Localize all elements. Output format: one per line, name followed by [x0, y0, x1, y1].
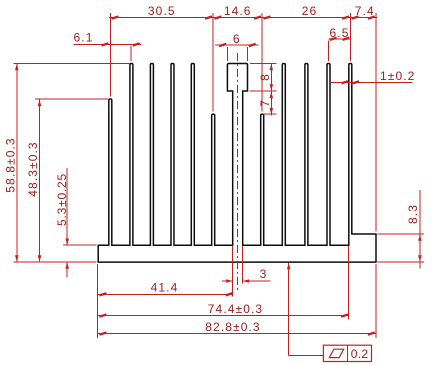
extension x=242.7 (stem right) below base top — [242, 246, 244, 284]
svg-text:6.1: 6.1 — [74, 31, 94, 45]
extension line x=213.2 (short fin6 center) — [212, 13, 214, 111]
dim line 6 (cap width) — [215, 44, 259, 46]
svg-text:3: 3 — [260, 267, 268, 281]
extension line x=110.3 (fin1 center) — [109, 13, 111, 96]
extension y=245.2 left (base top) — [63, 244, 97, 246]
dim line 5.3±0.25 upper segment — [66, 168, 68, 245]
dim line 82.8±0.3 — [98, 333, 376, 335]
arrowheads 5.3 (outside span) — [65, 239, 69, 246]
svg-text:6: 6 — [233, 32, 241, 46]
tick 30.5 left — [112, 17, 119, 19]
arrowheads dim 8 — [270, 64, 274, 71]
centerline of center T-fin (dash-dot) — [237, 53, 239, 291]
dim line 6.5 — [329, 38, 351, 40]
svg-text:6.5: 6.5 — [330, 26, 350, 40]
extension x=232.7 (stem left) below base top — [232, 246, 234, 297]
dim line 8.3 — [419, 190, 421, 269]
extension y=91 (cap bottom level) — [250, 90, 277, 92]
tick 14.6 right / 26 left — [254, 17, 261, 19]
heatsink extruded profile outline (fins, center T-fin, base, right ledge) — [98, 64, 376, 263]
tick 7.4 right — [368, 17, 375, 19]
svg-text:30.5: 30.5 — [148, 4, 176, 18]
ticks 41.4 — [99, 293, 106, 295]
ticks 6.5 (inside) — [330, 38, 337, 40]
extension y=114.1 (short fin top level) — [262, 113, 276, 115]
svg-text:7: 7 — [258, 99, 272, 107]
flatness leader line — [288, 263, 290, 356]
svg-text:8: 8 — [258, 73, 272, 81]
dim 3 line left stub — [222, 280, 233, 282]
arrowheads dim 7 — [270, 92, 274, 99]
tick 26 right / 7.4 left — [342, 17, 349, 19]
flatness leader arrow — [287, 263, 291, 270]
arrowheads 58.8 — [15, 64, 19, 71]
svg-text:14.6: 14.6 — [224, 4, 252, 18]
ticks 82.8 — [99, 333, 106, 335]
svg-text:8.3: 8.3 — [406, 204, 420, 224]
extension x=227.4 (cap left) — [226, 47, 228, 61]
extension x=348.4 (fin12 left) through base — [347, 246, 349, 320]
svg-text:5.3±0.25: 5.3±0.25 — [55, 173, 69, 226]
dim line 58.8±0.3 — [16, 64, 18, 263]
svg-text:26: 26 — [302, 4, 318, 18]
dim line 5.3±0.25 lower segment — [66, 262, 68, 277]
dim 3 arrows (outside) — [226, 279, 233, 283]
svg-text:82.8±0.3: 82.8±0.3 — [205, 320, 260, 334]
extension x=350.3 (fin12 center, upper) — [349, 41, 351, 62]
svg-text:48.3±0.3: 48.3±0.3 — [26, 141, 40, 196]
dim line 48.3±0.3 — [39, 100, 41, 262]
extension y=262.1 left (base bottom) — [13, 261, 96, 263]
dim line 6.1 — [74, 43, 141, 45]
extension y=99 left (fin1 top) — [35, 98, 108, 100]
svg-text:0.2: 0.2 — [351, 347, 369, 361]
ticks 6 (outside) — [219, 44, 226, 46]
svg-text:58.8±0.3: 58.8±0.3 — [3, 137, 17, 192]
svg-text:1±0.2: 1±0.2 — [380, 69, 415, 83]
extension x=376 below base — [375, 264, 377, 338]
extension line x=262.2 (short fin8 center) — [261, 13, 263, 111]
extension x=130.9 (fin2 center) — [130, 46, 132, 61]
extension y=234 right (ledge top) — [377, 233, 424, 235]
extension line x=376 (base right edge) — [375, 13, 377, 231]
extension y=63.5 left (tall fin top) — [13, 63, 129, 65]
dim line 8/7 vertical — [270, 64, 272, 116]
dim line 1±0.2 (fin thickness) — [330, 81, 412, 83]
extension y=262.1 right (base bottom) — [377, 261, 424, 263]
svg-text:74.4±0.3: 74.4±0.3 — [208, 302, 263, 316]
extension y=63.5 (cap top level) — [250, 63, 276, 65]
arrowheads 48.3 — [38, 100, 42, 107]
extension x=98.2 below base — [97, 264, 99, 338]
ticks 1±0.2 (outside fin12 edges) — [342, 81, 348, 83]
top dimension chain line (30.5 / 14.6 / 26 / 7.4) — [109, 17, 377, 19]
extension line x=350.3 (fin12 center) — [349, 13, 351, 61]
dim 3 line right segment — [243, 280, 271, 282]
arrowheads 8.3 — [418, 234, 422, 241]
extension x=328.6 (fin11 center) — [328, 41, 330, 62]
dim line 41.4 — [98, 293, 233, 295]
flatness feature control frame — [323, 345, 371, 361]
svg-text:7.4: 7.4 — [355, 4, 375, 18]
ticks 74.4 — [99, 315, 106, 317]
ticks 6.1 (outside) — [102, 43, 109, 45]
dim line 74.4±0.3 — [98, 315, 348, 317]
tick 30.5 right / 14.6 left — [205, 17, 212, 19]
extension x=247.5 (cap right) — [247, 47, 249, 61]
flatness symbol (parallelogram) — [329, 349, 343, 357]
svg-text:41.4: 41.4 — [151, 281, 179, 295]
